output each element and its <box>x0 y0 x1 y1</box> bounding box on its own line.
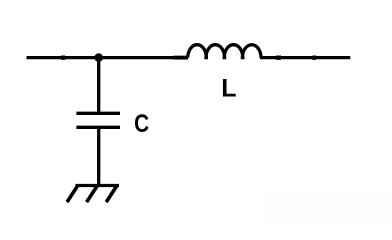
capacitor C: top plate <box>76 112 120 115</box>
node: junction dot <box>94 53 103 62</box>
ground: horizontal bar <box>76 184 120 187</box>
wire: left horizontal segment <box>27 56 189 59</box>
ground: left hatch stroke <box>67 186 78 203</box>
capacitor C: bottom plate <box>76 126 120 129</box>
wire: thicker lead-in to inductor <box>174 56 189 60</box>
svg-text:C: C <box>134 110 149 138</box>
wire: overlap joint blob on right segment (right) <box>312 56 316 60</box>
faint watermark box bottom-right <box>264 197 392 219</box>
wire: overlap joint blob on right segment (left) <box>276 56 281 60</box>
ground: middle hatch stroke <box>87 186 98 203</box>
wire: overlap joint blob on left segment <box>61 56 65 60</box>
wire: capacitor bottom plate to ground <box>97 127 100 185</box>
wire: junction to capacitor top plate <box>97 58 100 114</box>
svg-text:L: L <box>221 74 236 102</box>
wire: right horizontal segment <box>260 56 350 59</box>
ground: right hatch stroke <box>106 186 117 203</box>
inductor L (4 humps) <box>188 45 261 58</box>
